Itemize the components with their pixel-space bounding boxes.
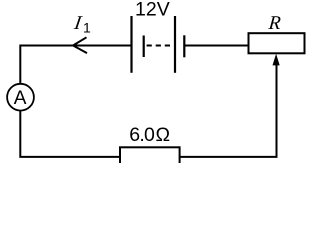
svg-text:12V: 12V bbox=[135, 0, 170, 21]
battery B2 positive plate (long) bbox=[174, 16, 176, 73]
label R bbox=[267, 13, 282, 34]
wire bottom-right: resistor to R wiper branch bbox=[180, 64, 277, 157]
ammeter A bbox=[7, 84, 34, 111]
battery B1 positive plate (long) bbox=[130, 16, 132, 73]
resistor R (box) bbox=[249, 33, 305, 53]
svg-text:R: R bbox=[267, 13, 282, 34]
wire top-left: battery to ammeter branch bbox=[20, 46, 131, 85]
wire top-right: battery to resistor R bbox=[184, 45, 248, 47]
svg-text:A: A bbox=[14, 88, 27, 109]
svg-text:1: 1 bbox=[83, 19, 91, 35]
battery dashed link (omitted cells) bbox=[147, 45, 171, 47]
wiper arrow head (points up at R) bbox=[273, 54, 280, 66]
svg-text:6.0Ω: 6.0Ω bbox=[129, 124, 169, 146]
battery B2 negative plate (short) bbox=[183, 35, 185, 57]
resistor 6.0 ohm (box, bottom edge cut off) bbox=[120, 147, 180, 169]
current arrow I1 (points left) bbox=[73, 37, 87, 53]
wire left: ammeter to bottom rail bbox=[20, 110, 120, 157]
label I1 bbox=[72, 13, 84, 34]
battery B1 negative plate (short) bbox=[143, 36, 145, 58]
